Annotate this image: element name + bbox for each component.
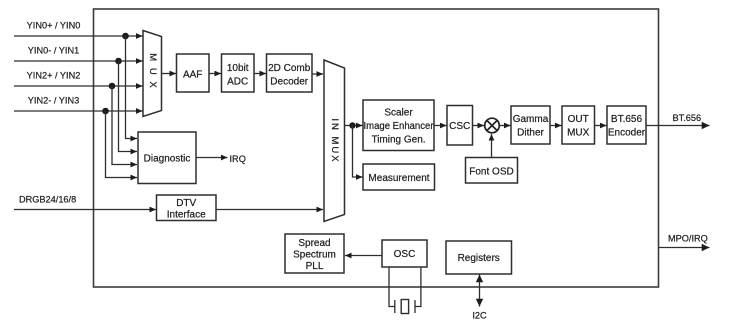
svg-text:10bit: 10bit [227,63,249,74]
block Scaler Image Enhancer Timing Gen. [363,100,434,151]
wire input YIN3 [14,110,143,112]
wire Scaler to CSC [434,125,447,127]
junction dot YIN3 [102,108,109,115]
svg-text:YIN0+ / YIN0: YIN0+ / YIN0 [27,20,81,30]
wire multiplier to Gamma Dither [499,125,510,127]
svg-text:YIN0- / YIN1: YIN0- / YIN1 [28,45,79,55]
block DTV Interface [157,195,217,221]
mux MUX [143,31,162,117]
block OUT MUX [562,106,595,144]
multiplier mixer symbol [485,118,500,133]
svg-text:CSC: CSC [449,121,470,132]
chip outline box [94,9,659,287]
wire 2D Comb Decoder to IN MUX [312,73,323,75]
svg-text:Gamma: Gamma [513,114,549,125]
svg-text:2D Comb: 2D Comb [268,63,311,74]
svg-text:Diagnostic: Diagnostic [144,153,191,164]
svg-text:I2C: I2C [472,311,487,321]
svg-text:AAF: AAF [183,69,202,80]
wire DRGB input [14,209,156,211]
svg-text:MUX: MUX [567,127,590,138]
svg-text:Timing Gen.: Timing Gen. [371,134,425,145]
crystal left plate [394,300,396,313]
block Diagnostic [138,132,196,184]
wire IRQ output [196,157,228,159]
svg-text:YIN2+ / YIN2: YIN2+ / YIN2 [27,70,81,80]
svg-text:ADC: ADC [227,76,248,87]
svg-text:BT.656: BT.656 [611,114,643,125]
svg-text:OUT: OUT [568,114,589,125]
label YIN0- / YIN1 [28,45,79,55]
wire input YIN1 [14,60,143,62]
wire IN MUX to Scaler [345,125,363,127]
block 2D Comb Decoder [267,54,313,92]
svg-text:Dither: Dither [517,127,544,138]
block BT.656 Encoder [607,106,646,144]
label YIN0+ / YIN0 [27,20,81,30]
wire branch to Measurement [353,126,363,178]
junction dot YIN0 [122,33,129,40]
label MPO/IRQ [668,234,708,244]
svg-text:IRQ: IRQ [230,154,246,164]
wire MUX to AAF [162,73,177,75]
svg-text:M U X: M U X [147,53,158,89]
wire YIN0 branch to Diagnostic [126,36,138,139]
wire AAF to ADC [209,73,221,75]
svg-text:Encoder: Encoder [608,127,646,138]
label I2C [472,311,487,321]
block Spread Spectrum PLL [285,234,344,273]
crystal body [401,300,408,314]
svg-text:BT.656: BT.656 [673,113,702,123]
wire MPO/IRQ output [659,247,710,249]
wire YIN2 branch to Diagnostic [112,86,137,165]
label BT.656 [673,113,702,123]
block Registers [446,241,512,274]
block OSC [382,240,427,267]
wire DTV Interface to IN MUX [216,209,323,211]
crystal left lead [389,267,395,307]
svg-text:Scaler: Scaler [384,108,413,119]
svg-text:Image Enhancer: Image Enhancer [364,121,435,132]
label YIN2+ / YIN2 [27,70,81,80]
block Gamma Dither [511,106,550,144]
wire OUT MUX to BT.656 Encoder [595,125,607,127]
svg-text:Decoder: Decoder [270,76,308,87]
svg-text:PLL: PLL [306,261,324,272]
wire BT.656 output [646,125,710,127]
junction dot YIN1 [115,58,122,65]
svg-text:YIN2- / YIN3: YIN2- / YIN3 [28,95,79,105]
junction dot YIN2 [109,83,116,90]
svg-text:Font OSD: Font OSD [469,166,513,177]
label DRGB24/16/8 [19,194,76,204]
wire YIN1 branch to Diagnostic [119,61,138,152]
wire OSC to Spread Spectrum PLL [345,255,382,257]
svg-text:IN MUX: IN MUX [329,118,340,163]
svg-text:DTV: DTV [176,198,196,209]
label YIN2- / YIN3 [28,95,79,105]
wire CSC to multiplier [473,125,485,127]
svg-text:MPO/IRQ: MPO/IRQ [668,234,708,244]
block 10bit ADC [222,54,255,92]
crystal right lead [415,267,421,307]
svg-text:OSC: OSC [394,249,416,260]
wire input YIN0 [14,35,143,37]
block Font OSD [466,158,518,184]
svg-text:Spectrum: Spectrum [293,250,336,261]
svg-text:Spread: Spread [298,238,330,249]
wire ADC to 2D Comb Decoder [254,73,266,75]
wire Font OSD to multiplier [491,134,493,158]
wire Gamma Dither to OUT MUX [550,125,562,127]
block Measurement [363,164,435,190]
block CSC [447,106,473,146]
svg-text:Interface: Interface [167,209,206,220]
svg-text:Measurement: Measurement [368,173,429,184]
svg-text:Registers: Registers [458,253,500,264]
wire I2C bidirectional [479,275,481,307]
label IRQ [230,154,246,164]
mux IN MUX [324,60,345,222]
wire YIN3 branch to Diagnostic [106,111,138,178]
wire input YIN2 [14,85,143,87]
svg-text:DRGB24/16/8: DRGB24/16/8 [19,194,76,204]
crystal right plate [414,300,416,313]
junction dot IN MUX output [349,122,355,128]
block AAF [177,54,210,92]
